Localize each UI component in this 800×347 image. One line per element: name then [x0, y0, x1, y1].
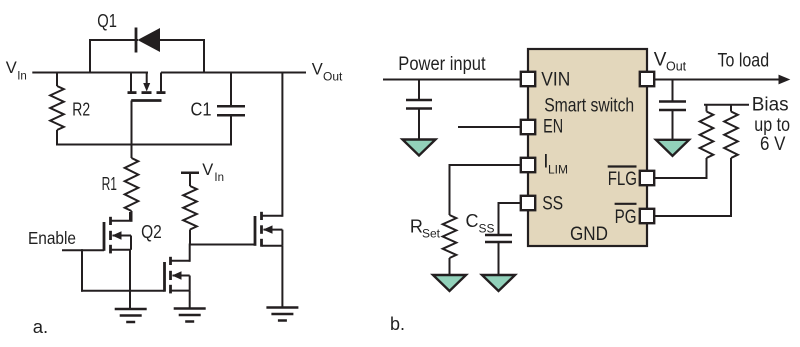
svg-text:Bias: Bias [752, 95, 789, 116]
pin ILIM square [521, 158, 535, 172]
resistor RSet label [410, 217, 441, 241]
svg-text:FLG: FLG [608, 169, 637, 190]
pin FLG label [608, 167, 637, 191]
resistor R2 label [72, 100, 90, 120]
pin ILIM label [543, 152, 568, 177]
wire SS to CSS [499, 202, 521, 235]
node To load label [718, 51, 770, 72]
pin SS square [521, 196, 535, 210]
wire M3 source to ground [281, 246, 283, 309]
capacitor input bypass [406, 80, 432, 141]
svg-text:Out: Out [323, 70, 343, 84]
svg-text:SS: SS [479, 222, 495, 236]
svg-text:GND: GND [570, 224, 608, 245]
wire bus R2-C1 [56, 144, 231, 146]
diode D1 body diode [131, 28, 160, 53]
wire power input [383, 79, 520, 81]
resistor bias left [700, 105, 714, 179]
resistor R2 [50, 73, 64, 146]
node VIn (panel a input label) [6, 59, 27, 83]
ground CSS [482, 275, 515, 291]
svg-text:Smart switch: Smart switch [544, 96, 634, 117]
resistor bias right [724, 105, 738, 217]
node Bias label [752, 95, 790, 156]
wire bias top bar [704, 104, 749, 106]
wire Q1 source to VOut [161, 72, 306, 74]
svg-text:Power input: Power input [398, 54, 486, 75]
pin VIN square [521, 72, 535, 86]
node Power input label [398, 54, 486, 75]
transistor Q2 label [141, 222, 162, 242]
wire M2 drain to junction [189, 244, 191, 262]
wire ILIM to RSet [450, 164, 521, 215]
svg-text:In: In [17, 71, 27, 83]
svg-text:b.: b. [390, 314, 405, 334]
pin EN label [543, 116, 563, 137]
resistor R1 [125, 145, 139, 222]
svg-text:Q1: Q1 [97, 11, 117, 31]
svg-text:V: V [202, 161, 213, 179]
ground M2 source [174, 309, 206, 322]
wire Enable [62, 249, 104, 251]
wire Q2 source to ground [129, 250, 131, 310]
capacitor CSS label [466, 211, 495, 236]
IC label GND [570, 224, 608, 245]
wire M2 source to ground [189, 291, 191, 310]
svg-text:Q2: Q2 [141, 222, 162, 242]
transistor Q1 label [97, 11, 117, 31]
wire FLG to bias left [655, 177, 708, 179]
pin SS label [542, 194, 563, 215]
svg-text:PG: PG [615, 207, 637, 228]
pin EN square [521, 120, 535, 134]
node Enable label [28, 228, 76, 248]
ground RSet [433, 275, 466, 291]
caption b. [390, 314, 405, 334]
wire M3 drain to VOut rail [281, 72, 283, 217]
svg-text:R1: R1 [102, 174, 117, 194]
wire Enable branch to M2 gate [81, 290, 165, 292]
svg-text:In: In [214, 172, 224, 184]
svg-text:C1: C1 [191, 100, 212, 120]
ground Q2 source [115, 309, 147, 322]
svg-text:To load: To load [718, 51, 770, 72]
pin FLG square [640, 171, 654, 185]
resistor divider from VIn [183, 173, 197, 245]
svg-text:a.: a. [33, 316, 48, 337]
resistor RSet [443, 215, 457, 276]
wire divider junction to M3 gate [189, 244, 255, 246]
svg-text:R: R [410, 217, 423, 237]
svg-text:V: V [312, 61, 323, 79]
transistor M2 [165, 257, 190, 294]
capacitor C1 [217, 73, 245, 146]
wire diode loop left [89, 39, 91, 74]
svg-text:Set: Set [422, 227, 441, 241]
svg-text:C: C [466, 211, 479, 231]
transistor Q2 [104, 217, 131, 254]
wire VIn to Q1 drain/body [32, 72, 148, 74]
svg-text:LIM: LIM [548, 163, 568, 177]
ground output cap [656, 140, 689, 156]
capacitor output [659, 80, 686, 141]
wire EN stub [458, 126, 520, 128]
svg-text:EN: EN [543, 116, 563, 137]
IC U1 Smart switch body [528, 49, 647, 246]
svg-text:SS: SS [542, 194, 563, 215]
caption a. [33, 316, 48, 337]
capacitor C1 label [191, 100, 212, 120]
pin PG square [640, 209, 654, 223]
node VOut label (panel b) [654, 49, 687, 73]
svg-text:6 V: 6 V [760, 134, 786, 155]
wire diode loop top-left [89, 39, 131, 41]
svg-text:V: V [654, 49, 667, 70]
ground M3 source [266, 308, 298, 321]
resistor R1 label [102, 174, 117, 194]
svg-text:R2: R2 [72, 100, 90, 120]
svg-text:Enable: Enable [28, 228, 76, 248]
node VIn supply label [202, 161, 224, 184]
pin VIN label [541, 70, 570, 91]
wire Enable branch down [81, 249, 83, 292]
wire Q2 drain to R1 [129, 212, 131, 221]
pin PG label [615, 204, 637, 228]
ground input cap [403, 140, 436, 156]
transistor M3 [255, 212, 282, 247]
wire VOut to load [655, 75, 791, 85]
wire diode loop top-right [159, 39, 205, 41]
transistor Q1 [128, 73, 166, 147]
svg-text:up to: up to [754, 115, 790, 136]
svg-text:Out: Out [666, 60, 687, 74]
svg-text:VIN: VIN [541, 70, 570, 91]
IC label Smart switch [544, 96, 634, 117]
wire diode loop right [203, 39, 205, 74]
node VIn supply bar [181, 171, 199, 174]
wire PG to bias right [655, 215, 733, 217]
capacitor CSS [485, 235, 512, 276]
pin VOUT square [640, 72, 654, 86]
svg-text:V: V [6, 59, 17, 77]
node VOut (panel a output label) [312, 61, 343, 84]
